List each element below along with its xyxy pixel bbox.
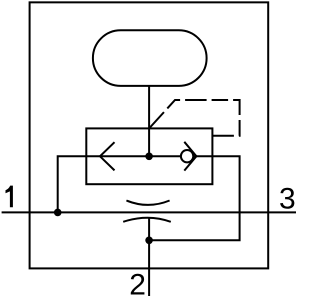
wire (flow line through valve body) (86, 155, 212, 157)
wire (port 2 vertical) (148, 218, 150, 296)
port line 1-3 (2, 211, 296, 213)
valve body V1 (regulator rectangle) (86, 128, 212, 184)
check valve seat (184, 142, 196, 171)
flow arrow (regulator direction) (100, 142, 115, 170)
junction dot B (port 1 branch) (54, 209, 62, 217)
diaphragm lower arc (123, 218, 171, 222)
pilot line (dashed) (149, 100, 240, 136)
wire (flow line right to return) (149, 156, 240, 240)
port 1 label (6, 186, 13, 208)
svg-text:2: 2 (129, 269, 146, 297)
wire (knob stem, center vertical) (148, 86, 150, 156)
diaphragm upper arc (126, 201, 169, 205)
check valve ball (181, 150, 193, 162)
enclosure box (component outline) (30, 2, 269, 268)
pilot knob K1 (stadium) (93, 30, 207, 86)
wire (flow line left, port 1 branch up) (58, 156, 87, 212)
svg-text:3: 3 (279, 183, 296, 216)
junction dot A (center) (145, 153, 153, 161)
junction dot C (port 2 branch) (145, 237, 153, 245)
